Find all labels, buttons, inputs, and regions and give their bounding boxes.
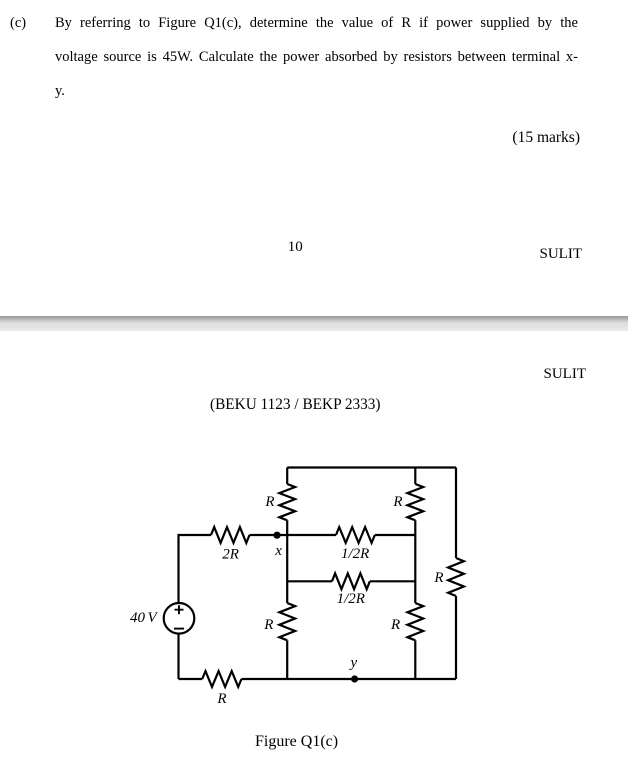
wire left branch (source top lead up to 2R row) [179, 535, 212, 603]
wire far right branch top lead [455, 468, 457, 559]
svg-text:y: y [349, 655, 358, 671]
wire inner right branch mid segment [414, 520, 416, 603]
voltage source plus sign [175, 605, 184, 614]
course code [210, 397, 381, 412]
resistor R inner bottom [407, 603, 423, 640]
wire inner right branch top lead [414, 468, 416, 485]
wire 2R to node x to middle branch [250, 534, 337, 536]
wire far right branch bottom lead [455, 596, 457, 679]
resistor 1/2R upper [336, 527, 375, 543]
resistor R bottom [202, 671, 241, 687]
svg-text:V: V [148, 610, 159, 626]
header SULIT page 2 [544, 367, 587, 382]
page number 10 [288, 240, 303, 255]
svg-text:R: R [392, 494, 402, 510]
resistor 2R [211, 527, 250, 543]
svg-text:R: R [390, 617, 400, 633]
resistor R middle top [279, 484, 295, 520]
svg-text:R: R [216, 691, 226, 707]
svg-text:R: R [264, 494, 274, 510]
circuit schematic [0, 440, 628, 760]
svg-text:R: R [263, 617, 273, 633]
marks label [512, 130, 580, 146]
voltage source V1 40V circle [164, 603, 195, 634]
svg-text:R: R [433, 570, 443, 586]
page separator bar [0, 316, 628, 331]
wire 1/2R lower to inner right branch [370, 580, 416, 582]
wire bottom rail [242, 678, 457, 680]
figure caption [255, 734, 338, 750]
svg-text:2R: 2R [222, 547, 239, 563]
wire left branch (source bottom lead to bottom rail) [177, 634, 179, 679]
resistor 1/2R lower [332, 573, 370, 589]
voltage source minus sign [174, 628, 184, 630]
svg-text:x: x [274, 543, 282, 559]
wire 1/2R upper to inner right branch [375, 534, 416, 536]
svg-text:1/2R: 1/2R [341, 546, 369, 562]
resistor R far right [448, 558, 464, 596]
wire middle branch mid segment [286, 520, 288, 603]
wire top rail [287, 466, 456, 468]
node y dot [351, 675, 358, 682]
resistor R inner top [407, 484, 423, 520]
resistor R middle bottom [279, 603, 295, 640]
wire second row left segment [287, 580, 332, 582]
wire bottom rail left lead [179, 678, 203, 680]
wire middle branch bottom lead [286, 640, 288, 679]
svg-text:40: 40 [130, 610, 146, 626]
wire middle branch top lead [286, 468, 288, 485]
wire inner right branch bottom lead [414, 640, 416, 679]
node x dot [273, 532, 280, 539]
question text paragraph [10, 16, 26, 31]
footer SULIT page 1 [540, 247, 583, 262]
svg-text:1/2R: 1/2R [337, 591, 365, 607]
